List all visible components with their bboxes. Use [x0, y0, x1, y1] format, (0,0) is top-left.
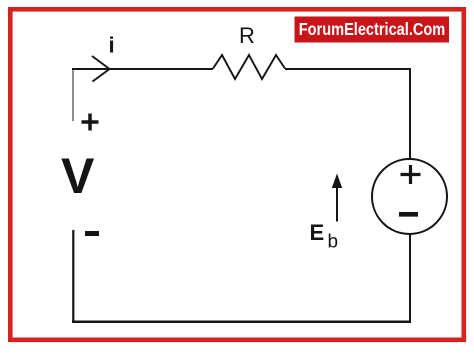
- svg-text:R: R: [239, 23, 255, 48]
- current arrow i: [92, 56, 110, 82]
- wire left top stub: [72, 68, 74, 121]
- plus mark inside source: [401, 165, 421, 184]
- svg-text:E: E: [310, 220, 325, 245]
- resistor R: [213, 55, 285, 79]
- wire right upper: [409, 68, 411, 160]
- svg-text:i: i: [109, 33, 115, 58]
- svg-text:b: b: [328, 232, 339, 253]
- plus terminal mark: [82, 114, 99, 131]
- svg-text:ForumElectrical.Com: ForumElectrical.Com: [299, 19, 445, 39]
- wire top left segment: [72, 68, 213, 70]
- wire top right segment: [285, 68, 411, 70]
- wire bottom: [72, 320, 411, 323]
- wire right lower: [409, 233, 411, 322]
- watermark ForumElectrical.Com: [295, 17, 450, 43]
- arrow Eb: [332, 174, 342, 222]
- minus terminal mark: [85, 231, 99, 236]
- svg-text:V: V: [61, 148, 95, 204]
- minus mark inside source: [399, 212, 418, 217]
- source Eb circle: [372, 159, 447, 234]
- label Eb: [310, 220, 339, 253]
- wire left lower: [72, 230, 74, 322]
